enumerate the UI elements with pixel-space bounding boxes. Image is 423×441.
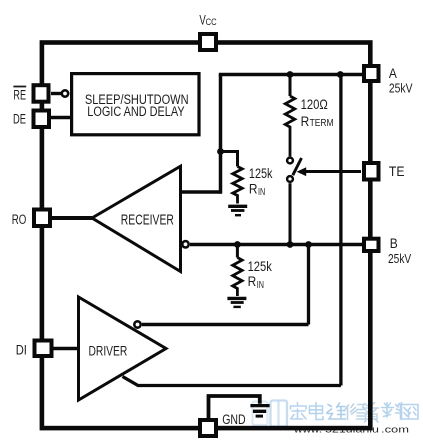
- resistor R2 125k RIN zigzag: [236, 245, 239, 258]
- resistor R3 120 ohm RTERM: [289, 75, 292, 97]
- pin TE box: [364, 163, 379, 180]
- svg-text:25kV: 25kV: [389, 82, 413, 96]
- pin DI box: [35, 341, 52, 357]
- watermark text (stylized CJK strokes): [291, 403, 419, 423]
- ground for R1: [228, 205, 247, 208]
- svg-text:25kV: 25kV: [388, 252, 412, 266]
- switch S1 bottom contact: [287, 176, 293, 182]
- char 1 jia: [291, 403, 307, 420]
- inverter bubble receiver inverting input: [182, 241, 188, 247]
- inverter bubble on RE: [62, 90, 68, 96]
- svg-text:R: R: [301, 114, 310, 130]
- char 4 xiu: [345, 404, 366, 420]
- wire TE arrow shaft: [306, 170, 362, 173]
- inverter bubble on driver output: [134, 321, 140, 327]
- svg-text:DE: DE: [13, 112, 26, 127]
- switch S1 lever: [293, 158, 302, 175]
- svg-text:DRIVER: DRIVER: [89, 344, 128, 360]
- switch S1 top contact: [287, 158, 293, 164]
- node J3 R2 top: [234, 241, 241, 248]
- wire RE box to bubble: [51, 92, 61, 95]
- label VCC: [199, 13, 216, 28]
- wire RO to receiver apex: [52, 216, 92, 220]
- ground for R2: [227, 297, 246, 300]
- pin GND box: [200, 420, 216, 436]
- op-amp DRIVER triangle: [79, 297, 167, 400]
- resistor R1 125k RIN zigzag: [233, 167, 243, 204]
- svg-text:125k: 125k: [248, 259, 272, 274]
- svg-text:120Ω: 120Ω: [301, 97, 328, 112]
- svg-text:CC: CC: [206, 17, 217, 27]
- wire receiver non-inverting input (top): [181, 190, 221, 194]
- ground near GND pin: [250, 404, 269, 407]
- wire branch to R1: [221, 152, 238, 167]
- pin RO box: [34, 210, 50, 227]
- label RIN R2: [248, 274, 264, 291]
- svg-text:TE: TE: [389, 164, 405, 179]
- svg-text:R: R: [248, 274, 257, 290]
- watermark logo icon: [253, 401, 288, 427]
- logic block U1: SLEEP/SHUTDOWN LOGIC AND DELAY: [72, 74, 199, 135]
- svg-text:R: R: [249, 181, 258, 197]
- svg-text:IN: IN: [258, 187, 265, 198]
- char 6 liao: [382, 403, 403, 420]
- char 2 dian: [310, 403, 324, 420]
- wire DE to logic box: [51, 116, 71, 119]
- label RE with overline: [13, 87, 26, 103]
- node J1 on receiver input line: [217, 148, 224, 155]
- pin DE box: [34, 111, 50, 128]
- svg-text:IN: IN: [257, 280, 264, 291]
- IC outline: [42, 43, 370, 429]
- pin VCC box: [200, 34, 216, 50]
- svg-text:.com: .com: [381, 425, 409, 436]
- op-amp RECEIVER triangle: [92, 166, 181, 271]
- arrowhead toward switch: [297, 167, 307, 176]
- svg-text:125k: 125k: [249, 166, 273, 181]
- svg-text:RECEIVER: RECEIVER: [121, 212, 174, 228]
- pin A box: [364, 66, 379, 81]
- label RTERM: [301, 114, 334, 130]
- svg-text:DI: DI: [16, 343, 27, 358]
- node J2 RTERM top: [287, 71, 294, 78]
- wire A line horizontal to pin A: [219, 73, 362, 77]
- char 5 zi: [364, 403, 379, 423]
- svg-text:GND: GND: [222, 412, 245, 428]
- svg-text:A: A: [389, 66, 397, 81]
- wire DI to driver: [54, 347, 79, 351]
- pin RE box: [34, 85, 49, 102]
- svg-text:LOGIC AND DELAY: LOGIC AND DELAY: [87, 104, 184, 119]
- watermark url: [293, 425, 409, 436]
- node J4 switch bottom: [287, 241, 294, 248]
- wire driver output to A line: [123, 377, 341, 386]
- svg-text:B: B: [390, 236, 398, 251]
- wire driver inverted output to B line: [142, 323, 309, 327]
- wire B line horizontal: [190, 243, 362, 247]
- label RIN R1: [249, 181, 265, 198]
- wire switch to B line: [289, 183, 292, 244]
- pin B box: [364, 239, 379, 251]
- wire vertical to A line: [219, 75, 223, 194]
- char 3 wei: [327, 403, 346, 419]
- svg-text:TERM: TERM: [310, 118, 334, 129]
- svg-text:RE: RE: [13, 87, 26, 102]
- wire GND loop: [209, 396, 260, 419]
- svg-text:RO: RO: [12, 212, 27, 227]
- node J6 driver output on A line: [337, 71, 344, 78]
- char 7 wang: [401, 405, 419, 420]
- node J5 driver inverted output: [305, 241, 312, 248]
